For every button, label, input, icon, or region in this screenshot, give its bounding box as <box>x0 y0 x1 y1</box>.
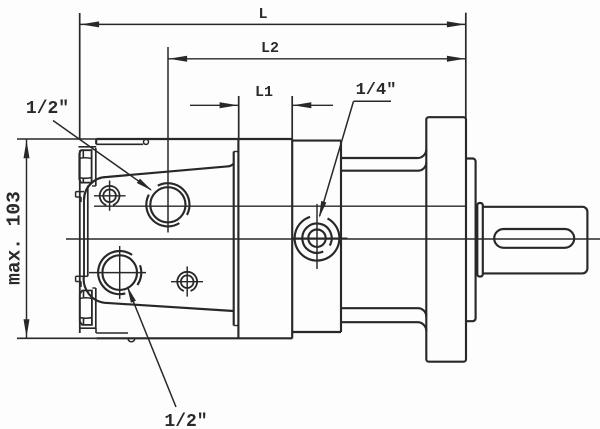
port face plate bottom edge <box>84 275 234 311</box>
output shaft <box>483 207 588 274</box>
dimension L2 line with arrows <box>168 56 466 62</box>
lower hex plug <box>80 291 92 325</box>
dimension L1 extension line right <box>291 96 293 140</box>
dimension label max. 103 <box>4 191 26 285</box>
svg-text:max. 103: max. 103 <box>4 191 26 285</box>
neck bottom tangent line <box>341 308 426 316</box>
dimension L/L2 extension line right <box>465 13 467 118</box>
bearing boss <box>466 159 476 322</box>
dimension label L <box>258 6 267 23</box>
leader for bottom 1/2 inch port <box>127 286 176 407</box>
top port centerline horizontal <box>94 205 466 207</box>
dimension label L1 <box>255 84 273 101</box>
end cap outline <box>292 141 341 332</box>
motor body outline <box>96 139 292 338</box>
dimension L extension line left <box>79 13 81 139</box>
label 1/2 inch bottom <box>164 412 207 429</box>
rear manifold silhouette lines <box>80 148 96 333</box>
nameplate strap bottom <box>96 333 135 342</box>
bolt hole B2 (bottom) circles <box>177 272 197 291</box>
gerotor/endcap joint line <box>291 139 293 339</box>
seal ring <box>477 203 483 277</box>
svg-text:1/2": 1/2" <box>26 99 69 119</box>
port P2 crosshair <box>89 246 146 299</box>
neck bottom silhouette <box>341 322 426 331</box>
body/gerotor joint lines <box>234 139 239 339</box>
svg-text:L2: L2 <box>261 40 279 57</box>
lower plug seat <box>76 276 97 328</box>
nameplate strap top <box>96 139 148 144</box>
main centerline <box>66 238 600 240</box>
label 1/4 inch <box>356 81 397 100</box>
port P1 (top 1/2 inch) inner circle <box>150 187 185 222</box>
port P3 middle arc <box>302 223 331 252</box>
dimension L1 extension line left <box>238 96 240 138</box>
port face plate left edge <box>84 186 88 277</box>
bolt hole B1 (top) circles <box>100 186 120 205</box>
mounting flange <box>426 117 466 362</box>
top port centerline vertical / L2 extension <box>167 47 169 233</box>
dimension max.103 extension top <box>17 138 96 140</box>
dimension L1 arrows <box>190 102 333 108</box>
neck top tangent line <box>341 162 426 170</box>
dimension L line with arrows <box>80 21 466 27</box>
dimension max.103 extension bottom <box>17 337 96 339</box>
upper plug seat <box>76 147 97 202</box>
leader for 1/4 inch port <box>319 101 391 218</box>
neck top silhouette <box>341 149 426 158</box>
port face plate top edge <box>84 164 234 200</box>
dimension label L2 <box>261 40 279 57</box>
svg-text:L: L <box>258 6 267 23</box>
label 1/2 inch top left <box>26 99 69 119</box>
upper hex plug <box>79 150 91 182</box>
leader for top 1/2 inch port <box>53 121 152 191</box>
shaft keyway slot <box>494 229 574 248</box>
svg-text:1/2": 1/2" <box>164 412 207 429</box>
port P3 (1/4 inch) inner circle <box>308 230 325 247</box>
bolt hole B1 crosshair <box>94 181 126 211</box>
port P3 outer arc <box>295 217 340 261</box>
svg-text:L1: L1 <box>255 84 273 101</box>
port P3 crosshair <box>292 204 347 269</box>
svg-text:1/4": 1/4" <box>356 81 397 100</box>
dimension max.103 line with arrows <box>24 140 30 339</box>
port P2 (bottom 1/2 inch) inner circle <box>102 255 137 290</box>
port P2 outer arc <box>98 251 141 294</box>
port P1 outer arc <box>146 183 189 226</box>
bolt hole B2 crosshair <box>171 266 203 296</box>
